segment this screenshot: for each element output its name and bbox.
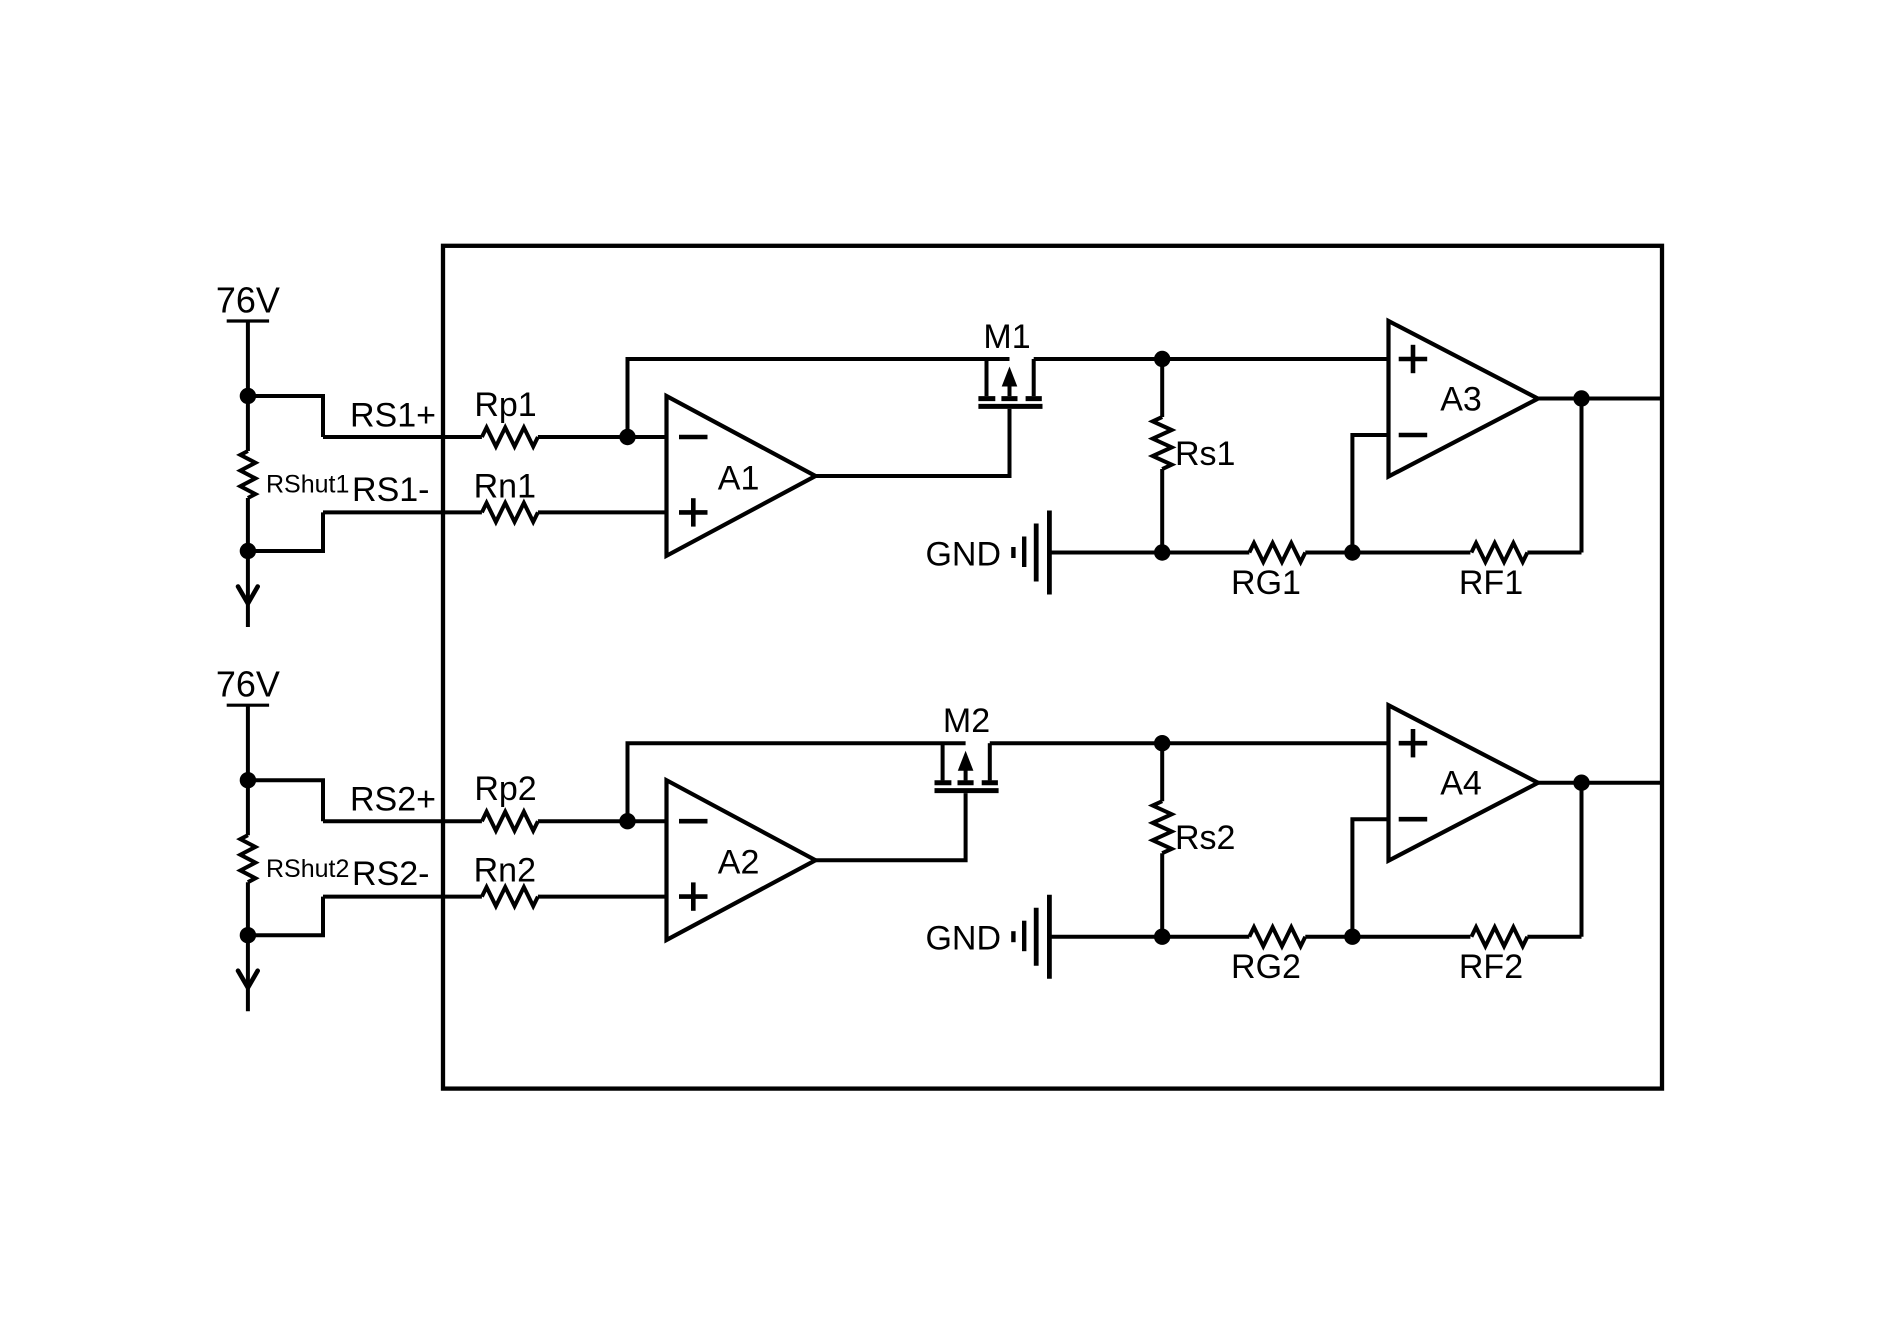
op-amp A4 [1389,705,1539,861]
node junction dot at RS1+ tap [240,388,256,404]
op-amp A1 [667,396,816,556]
wire Rn2 to non-inverting input [538,895,667,899]
wire Rn1 to non-inverting input [538,510,667,514]
svg-text:RF1: RF1 [1459,564,1523,602]
wire RS1+ tap step [248,396,323,437]
node junction dot ground/Rs1 [1154,544,1170,560]
pin A2 inverting (minus) [679,819,708,824]
wire sense node to A3 non-inverting input [1162,357,1388,361]
pin A4 non-inverting (plus) [1399,741,1428,746]
wire feedback node to A3 inverting input [1352,435,1388,553]
resistor Rs2 [1160,743,1164,801]
svg-text:RS1+: RS1+ [350,397,436,435]
resistor Rs1 [1160,359,1164,417]
wire M2 drain to sense node [990,741,1162,745]
wire A2 output to M2 gate [816,793,966,860]
wire feedback riser to output node [1580,399,1584,553]
resistor Rp2 [482,812,538,831]
svg-text:Rs2: Rs2 [1175,819,1235,857]
svg-text:GND: GND [925,920,1001,958]
resistor RShut1 [240,451,255,498]
op-amp A3 [1389,321,1539,477]
wire RS1+ line into box [323,435,482,439]
wire ground rail [1049,935,1249,939]
svg-text:Rs1: Rs1 [1175,435,1235,473]
pin A1 non-inverting (plus) [679,510,708,515]
wire 76V underline bar [227,704,269,707]
wire sense node to A4 non-inverting input [1162,741,1388,745]
svg-text:M2: M2 [943,702,990,740]
svg-text:M1: M1 [983,318,1030,356]
svg-text:Rp2: Rp2 [474,770,536,808]
node sense node junction dot (top of Rs1) [1154,351,1170,367]
wire shunt bottom segment [246,498,250,627]
wire Rp1 to inverting input [538,435,667,439]
wire RF2 to output [1527,935,1581,939]
node feedback junction dot [1344,929,1360,945]
wire RS2- line into box [323,895,482,899]
svg-text:76V: 76V [216,280,280,321]
op-amp A2 [667,780,816,940]
resistor Rn2 [482,887,538,906]
wire 76V vertical drop to shunt [246,705,250,835]
node feedback junction dot [1344,544,1360,560]
wire ground rail [1049,551,1249,555]
wire RG1 to feedback node [1305,551,1470,555]
node junction dot at RS2+ tap [240,772,256,788]
svg-text:RG1: RG1 [1231,564,1301,602]
wire 76V underline bar [227,319,269,322]
svg-text:Rn2: Rn2 [474,852,536,890]
wire top rail from inverting input to M2 source [628,743,966,821]
svg-text:GND: GND [925,536,1001,574]
pin A3 inverting (minus) [1399,433,1428,438]
resistor Rp1 [482,428,538,447]
svg-text:RG2: RG2 [1231,948,1301,986]
wire current arrow head (chevron) [238,587,258,604]
wire top rail from inverting input to M1 source [628,359,1010,437]
node sense node junction dot (top of Rs2) [1154,735,1170,751]
resistor RF1 [1471,543,1527,562]
wire M1 drain to sense node [1034,357,1163,361]
svg-text:76V: 76V [216,664,280,705]
pin A3 non-inverting (plus) [1399,357,1428,362]
resistor RF2 [1471,927,1527,946]
svg-text:Rn1: Rn1 [474,468,536,506]
svg-text:RShut1: RShut1 [266,471,349,499]
node output junction dot [1573,390,1589,406]
wire RS2- tap step [248,897,323,936]
wire A1 output to M1 gate [816,409,1010,476]
svg-text:RS1-: RS1- [352,471,429,509]
pin A2 non-inverting (plus) [679,894,708,899]
resistor RG1 [1249,543,1305,562]
resistor RShut2 [240,835,255,882]
wire RF1 to output [1527,551,1581,555]
svg-text:RF2: RF2 [1459,948,1523,986]
svg-text:A1: A1 [718,460,760,498]
node junction dot ground/Rs2 [1154,929,1170,945]
svg-text:A2: A2 [718,844,760,882]
svg-text:Rp1: Rp1 [474,386,536,424]
node output junction dot [1573,775,1589,791]
wire feedback node to A4 inverting input [1352,819,1388,937]
pin A4 inverting (minus) [1399,817,1428,822]
transistor M2 (P-channel MOSFET) [935,743,999,790]
svg-text:RS2+: RS2+ [350,781,436,819]
wire RS1- line into box [323,510,482,514]
boundary box of the IC [443,246,1662,1089]
node junction dot at RS1- tap [240,543,256,559]
wire 76V vertical drop to shunt [246,321,250,451]
node junction dot at A1 inverting input [619,429,635,445]
svg-text:A4: A4 [1440,765,1482,803]
ground GND symbol (channel 2) [1013,895,1049,979]
node junction dot at RS2- tap [240,927,256,943]
resistor RG2 [1249,927,1305,946]
wire RS2+ line into box [323,819,482,823]
svg-text:RS2-: RS2- [352,855,429,893]
transistor M1 (P-channel MOSFET) [978,359,1042,406]
wire feedback riser to output node [1580,783,1584,937]
wire A3 output [1538,397,1662,401]
svg-text:RShut2: RShut2 [266,855,349,883]
wire RG2 to feedback node [1305,935,1470,939]
wire Rp2 to inverting input [538,819,667,823]
svg-text:A3: A3 [1440,381,1482,419]
wire RS1- tap step [248,512,323,551]
resistor Rn1 [482,503,538,522]
wire shunt bottom segment [246,882,250,1011]
wire current arrow head (chevron) [238,971,258,988]
wire A4 output [1538,781,1662,785]
ground GND symbol (channel 1) [1013,511,1049,595]
pin A1 inverting (minus) [679,435,708,440]
node junction dot at A2 inverting input [619,813,635,829]
wire RS2+ tap step [248,780,323,821]
